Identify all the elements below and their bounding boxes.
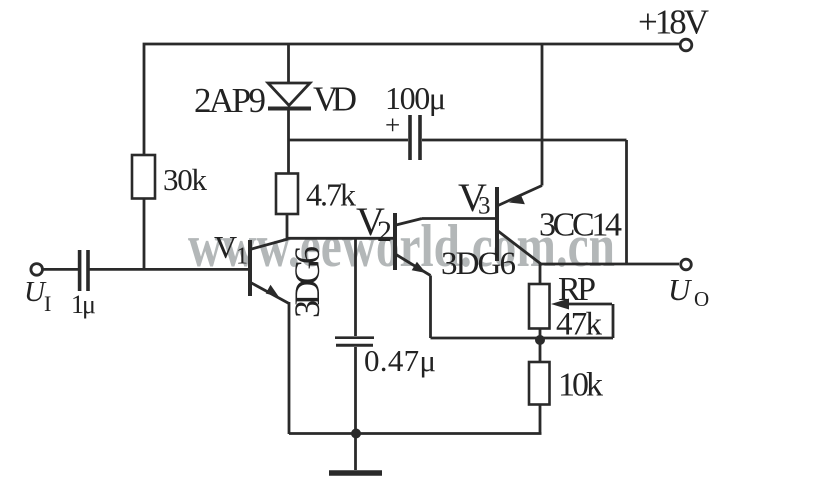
svg-text:+18V: +18V xyxy=(638,3,709,42)
svg-text:U: U xyxy=(668,272,693,307)
svg-text:0.47μ: 0.47μ xyxy=(364,343,436,378)
svg-text:3DG6: 3DG6 xyxy=(441,246,516,282)
svg-text:2: 2 xyxy=(377,215,392,248)
svg-text:1μ: 1μ xyxy=(71,290,96,319)
svg-text:V: V xyxy=(214,229,237,265)
svg-text:VD: VD xyxy=(313,80,357,119)
svg-text:+: + xyxy=(385,110,400,140)
svg-text:I: I xyxy=(44,291,51,316)
svg-text:O: O xyxy=(694,287,709,311)
svg-text:RP: RP xyxy=(558,271,596,308)
svg-text:2AP9: 2AP9 xyxy=(194,81,266,120)
svg-text:3CC14: 3CC14 xyxy=(539,207,622,244)
svg-text:47k: 47k xyxy=(556,307,603,343)
svg-text:3DG6: 3DG6 xyxy=(287,246,327,318)
svg-text:30k: 30k xyxy=(163,162,208,197)
svg-text:3: 3 xyxy=(478,193,491,220)
svg-text:1: 1 xyxy=(236,244,248,270)
svg-text:4.7k: 4.7k xyxy=(306,177,356,213)
svg-text:10k: 10k xyxy=(558,367,603,404)
